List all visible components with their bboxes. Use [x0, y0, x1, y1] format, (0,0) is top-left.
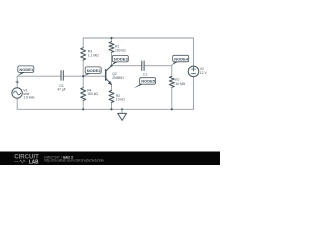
- svg-text:http://circuitlab.com/c/sK3rvq: http://circuitlab.com/c/sK3rvqNc9eb2x9e: [44, 159, 104, 163]
- svg-text:47 µF: 47 µF: [57, 88, 66, 92]
- svg-text:12 V: 12 V: [200, 71, 208, 75]
- svg-text:10 kΩ: 10 kΩ: [116, 98, 125, 102]
- svg-text:1.1 MΩ: 1.1 MΩ: [88, 53, 99, 57]
- svg-text:1.5 kHz: 1.5 kHz: [23, 95, 35, 99]
- svg-text:NODE2: NODE2: [87, 68, 102, 73]
- svg-text:NODE4: NODE4: [174, 56, 189, 61]
- svg-text:100 kΩ: 100 kΩ: [87, 92, 98, 96]
- svg-text:160 kΩ: 160 kΩ: [115, 48, 126, 52]
- svg-text:NODE5: NODE5: [141, 79, 156, 84]
- svg-text:2N5551: 2N5551: [112, 76, 124, 80]
- svg-text:NODE1: NODE1: [19, 67, 34, 72]
- svg-text:C1: C1: [143, 73, 147, 77]
- svg-text:NODE3: NODE3: [114, 56, 129, 61]
- svg-text:LAB: LAB: [29, 159, 39, 165]
- svg-text:10 MΩ: 10 MΩ: [175, 82, 185, 86]
